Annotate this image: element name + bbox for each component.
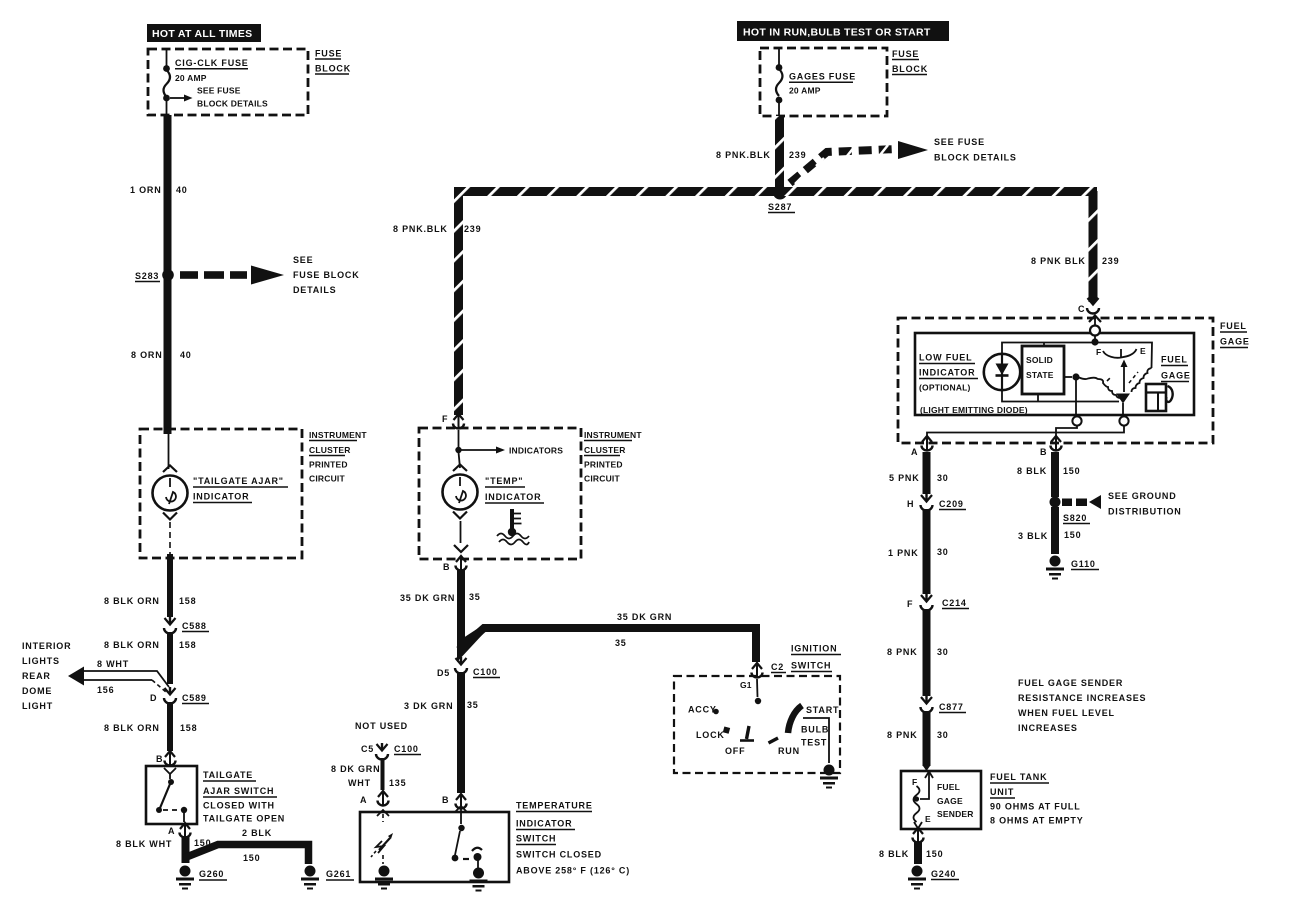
svg-text:30: 30 xyxy=(937,473,949,483)
svg-text:SWITCH: SWITCH xyxy=(791,661,831,671)
wire 2 BLK 150 to G261 xyxy=(184,828,309,864)
svg-text:BLOCK: BLOCK xyxy=(315,64,351,74)
svg-text:H: H xyxy=(907,499,914,509)
svg-text:D5: D5 xyxy=(437,668,450,678)
svg-text:8 BLK: 8 BLK xyxy=(1017,466,1047,476)
svg-text:8 BLK ORN: 8 BLK ORN xyxy=(104,640,160,650)
fuse CIG-CLK FUSE 20 AMP xyxy=(163,50,249,114)
svg-text:BLOCK DETAILS: BLOCK DETAILS xyxy=(197,99,268,109)
svg-text:LIGHT: LIGHT xyxy=(22,701,53,711)
see fuse block details arrow (fuse1) xyxy=(170,86,268,109)
svg-text:8 PNK BLK: 8 PNK BLK xyxy=(1031,256,1086,266)
not used branch C5 C100 xyxy=(355,721,421,760)
striped wire 8 PNK BLK 239 (right drop) xyxy=(1031,191,1119,302)
svg-text:TEST: TEST xyxy=(801,738,827,748)
svg-text:WHT: WHT xyxy=(348,778,371,788)
svg-text:INDICATOR: INDICATOR xyxy=(919,368,975,378)
svg-text:8 PNK: 8 PNK xyxy=(887,647,918,657)
svg-text:C209: C209 xyxy=(939,499,964,509)
svg-text:SWITCH: SWITCH xyxy=(516,834,556,844)
svg-text:239: 239 xyxy=(464,224,481,234)
wire 8 BLK 150 (to G240) xyxy=(879,842,943,864)
svg-text:20 AMP: 20 AMP xyxy=(175,73,207,83)
svg-text:A: A xyxy=(911,447,918,457)
svg-text:"TEMP": "TEMP" xyxy=(485,476,523,486)
connector C100 D5 xyxy=(437,657,500,678)
svg-text:INTERIOR: INTERIOR xyxy=(22,641,71,651)
svg-text:UNIT: UNIT xyxy=(990,787,1014,797)
svg-text:156: 156 xyxy=(97,685,114,695)
svg-text:C588: C588 xyxy=(182,621,207,631)
svg-text:G261: G261 xyxy=(326,869,351,879)
svg-text:RESISTANCE INCREASES: RESISTANCE INCREASES xyxy=(1018,693,1146,703)
wire 8 BLK 150 (B to S820) xyxy=(1017,452,1080,497)
svg-text:PRINTED: PRINTED xyxy=(584,460,623,470)
svg-text:SWITCH CLOSED: SWITCH CLOSED xyxy=(516,850,602,860)
svg-text:158: 158 xyxy=(179,596,196,606)
svg-text:REAR: REAR xyxy=(22,671,51,681)
svg-text:E: E xyxy=(925,814,931,824)
svg-text:CIRCUIT: CIRCUIT xyxy=(309,474,345,484)
svg-text:C5: C5 xyxy=(361,744,374,754)
fuel tank unit label xyxy=(990,772,1084,826)
svg-text:G240: G240 xyxy=(931,869,956,879)
svg-text:NOT USED: NOT USED xyxy=(355,721,408,731)
striped wire 8 PNK BLK 239 (fuse to S287) xyxy=(716,116,806,190)
svg-text:F: F xyxy=(1096,347,1101,357)
svg-text:AJAR SWITCH: AJAR SWITCH xyxy=(203,786,274,796)
fuel gage inner box xyxy=(915,326,1194,416)
svg-text:C2: C2 xyxy=(771,662,784,672)
svg-text:8 WHT: 8 WHT xyxy=(97,659,129,669)
ground G240 xyxy=(908,866,959,890)
pin A temp switch xyxy=(360,791,389,806)
svg-text:35: 35 xyxy=(469,592,481,602)
svg-text:F: F xyxy=(442,414,448,424)
svg-text:SEE GROUND: SEE GROUND xyxy=(1108,491,1177,501)
svg-text:30: 30 xyxy=(937,730,949,740)
svg-text:RUN: RUN xyxy=(778,746,800,756)
svg-text:C100: C100 xyxy=(473,667,498,677)
svg-text:90 OHMS AT FULL: 90 OHMS AT FULL xyxy=(990,802,1081,812)
svg-text:35: 35 xyxy=(467,700,479,710)
svg-text:135: 135 xyxy=(389,778,406,788)
svg-text:8 PNK.BLK: 8 PNK.BLK xyxy=(716,150,771,160)
svg-text:C100: C100 xyxy=(394,744,419,754)
temp switch contact (right) xyxy=(452,806,482,868)
svg-text:SEE FUSE: SEE FUSE xyxy=(197,86,241,96)
wire 3 BLK 150 (S820 to G110) xyxy=(1018,507,1081,554)
svg-text:FUSE: FUSE xyxy=(315,49,342,59)
LED low fuel indicator xyxy=(984,354,1020,390)
svg-text:8 PNK.BLK: 8 PNK.BLK xyxy=(393,224,448,234)
svg-text:E: E xyxy=(1140,346,1146,356)
svg-text:B: B xyxy=(443,562,450,572)
low fuel indicator text xyxy=(919,353,1028,416)
label HOT AT ALL TIMES xyxy=(147,24,261,42)
svg-text:GAGE: GAGE xyxy=(1220,337,1250,347)
ground G110 xyxy=(1046,556,1099,580)
connector C588 xyxy=(164,617,209,634)
svg-text:SEE FUSE: SEE FUSE xyxy=(934,137,985,147)
svg-text:LOW FUEL: LOW FUEL xyxy=(919,353,972,363)
svg-text:150: 150 xyxy=(243,853,260,863)
pin B fuel gage xyxy=(1040,436,1062,457)
pin B temp switch xyxy=(442,794,467,809)
svg-text:GAGE: GAGE xyxy=(937,796,963,806)
svg-text:239: 239 xyxy=(789,150,806,160)
svg-text:INCREASES: INCREASES xyxy=(1018,723,1078,733)
wire 8 BLK ORN 158 (to C588) xyxy=(104,554,196,617)
temp switch thermal contact (left) xyxy=(371,810,393,864)
svg-text:1 ORN: 1 ORN xyxy=(130,185,162,195)
svg-text:S820: S820 xyxy=(1063,513,1087,523)
svg-text:150: 150 xyxy=(926,849,943,859)
svg-text:INSTRUMENT: INSTRUMENT xyxy=(584,430,642,440)
svg-text:G110: G110 xyxy=(1071,559,1096,569)
svg-text:8 PNK: 8 PNK xyxy=(887,730,918,740)
splice S820 and see ground distribution arrow xyxy=(1050,491,1182,524)
svg-text:1 PNK: 1 PNK xyxy=(888,548,919,558)
connector C589 xyxy=(150,687,209,704)
svg-text:DOME: DOME xyxy=(22,686,52,696)
svg-text:8 ORN: 8 ORN xyxy=(131,350,163,360)
svg-text:8 DK GRN: 8 DK GRN xyxy=(331,764,380,774)
svg-text:SEE: SEE xyxy=(293,255,313,265)
svg-text:CLOSED WITH: CLOSED WITH xyxy=(203,801,275,811)
splice S283 xyxy=(135,269,174,281)
svg-text:(LIGHT EMITTING DIODE): (LIGHT EMITTING DIODE) xyxy=(920,405,1028,415)
ignition switch ground xyxy=(820,765,838,789)
svg-text:FUEL GAGE SENDER: FUEL GAGE SENDER xyxy=(1018,678,1123,688)
wire 8 DK GRN WHT 135 xyxy=(331,758,406,790)
wire 1 PNK 30 xyxy=(888,509,949,594)
svg-text:CIG-CLK FUSE: CIG-CLK FUSE xyxy=(175,58,249,68)
svg-text:LIGHTS: LIGHTS xyxy=(22,656,60,666)
fuse GAGES FUSE 20 AMP xyxy=(776,49,856,115)
svg-text:INDICATOR: INDICATOR xyxy=(516,819,572,829)
svg-text:8 BLK ORN: 8 BLK ORN xyxy=(104,723,160,733)
svg-text:STATE: STATE xyxy=(1026,370,1054,380)
fuel gauge meter xyxy=(1079,343,1191,417)
ignition switch contacts xyxy=(688,679,839,763)
wire bus top (LED/SS to C pin) xyxy=(1002,335,1099,354)
striped bus wire horizontal xyxy=(454,187,1097,196)
pin A fuel gage xyxy=(911,436,933,457)
fuel gage sender resistor xyxy=(914,772,934,829)
svg-text:ABOVE 258° F (126° C): ABOVE 258° F (126° C) xyxy=(516,866,630,876)
svg-text:SENDER: SENDER xyxy=(937,809,974,819)
svg-text:3 BLK: 3 BLK xyxy=(1018,531,1048,541)
wire 8 BLK ORN 158 (C588 to C589) xyxy=(104,632,196,684)
svg-text:FUSE: FUSE xyxy=(892,49,919,59)
svg-text:B: B xyxy=(442,795,449,805)
pin F instrument cluster (temp) xyxy=(442,414,464,429)
fuse block 2 dashed box xyxy=(760,48,928,116)
temp indicator bulb xyxy=(443,452,545,552)
instrument cluster printed circuit box (left) xyxy=(140,429,367,558)
svg-text:FUEL: FUEL xyxy=(1220,321,1247,331)
svg-text:LOCK: LOCK xyxy=(696,730,725,740)
wire 3 DK GRN 35 (C100 to B) xyxy=(404,672,479,793)
svg-text:S283: S283 xyxy=(135,271,159,281)
svg-text:G260: G260 xyxy=(199,869,224,879)
connector C877 xyxy=(921,696,967,713)
S287 dashed arrow SEE FUSE BLOCK DETAILS xyxy=(790,137,1017,184)
svg-text:INDICATOR: INDICATOR xyxy=(193,492,249,502)
wire 35 DK GRN 35 (B to C100) xyxy=(400,570,481,653)
fuel tank unit box xyxy=(901,771,981,829)
S283 dashed arrow SEE FUSE BLOCK DETAILS xyxy=(180,255,360,295)
temp switch ground (right) xyxy=(470,868,488,892)
striped wire 8 PNK.BLK 239 (left drop) xyxy=(393,191,481,415)
wire 8 PNK 30 (C877 to fuel tank unit) xyxy=(887,711,949,771)
svg-text:GAGE: GAGE xyxy=(1161,371,1191,381)
splice S287 xyxy=(768,186,795,213)
svg-text:"TAILGATE AJAR": "TAILGATE AJAR" xyxy=(193,476,284,486)
wire 1 ORN 40 xyxy=(130,115,188,434)
svg-text:SOLID: SOLID xyxy=(1026,355,1053,365)
wire bus bottom (LED/SS to coil vertex) xyxy=(1002,390,1119,402)
svg-text:WHEN FUEL LEVEL: WHEN FUEL LEVEL xyxy=(1018,708,1115,718)
svg-text:C214: C214 xyxy=(942,598,967,608)
svg-text:3 DK GRN: 3 DK GRN xyxy=(404,701,453,711)
fuel gage pin circles xyxy=(927,416,1129,438)
svg-text:239: 239 xyxy=(1102,256,1119,266)
svg-text:DETAILS: DETAILS xyxy=(293,285,336,295)
svg-text:5 PNK: 5 PNK xyxy=(889,473,920,483)
svg-text:INSTRUMENT: INSTRUMENT xyxy=(309,430,367,440)
tailgate ajar indicator bulb xyxy=(153,430,289,556)
svg-text:A: A xyxy=(360,795,367,805)
svg-text:CLUSTER: CLUSTER xyxy=(584,445,626,455)
svg-text:FUEL: FUEL xyxy=(1161,355,1188,365)
svg-text:8 BLK WHT: 8 BLK WHT xyxy=(116,839,172,849)
svg-text:40: 40 xyxy=(180,350,192,360)
svg-text:C: C xyxy=(1078,304,1085,314)
svg-text:FUEL TANK: FUEL TANK xyxy=(990,772,1047,782)
svg-text:TEMPERATURE: TEMPERATURE xyxy=(516,801,593,811)
pin C fuel gage xyxy=(1078,297,1101,326)
solid state to gauge junction xyxy=(1064,373,1080,416)
svg-text:35 DK GRN: 35 DK GRN xyxy=(617,612,672,622)
svg-text:CLUSTER: CLUSTER xyxy=(309,445,351,455)
svg-text:35: 35 xyxy=(615,638,627,648)
svg-text:PRINTED: PRINTED xyxy=(309,460,348,470)
svg-text:2 BLK: 2 BLK xyxy=(242,828,272,838)
svg-text:BLOCK DETAILS: BLOCK DETAILS xyxy=(934,153,1017,163)
tailgate ajar switch box xyxy=(146,766,285,824)
pin B tailgate switch xyxy=(156,751,176,766)
temp icon thermometer xyxy=(497,509,529,545)
wire 8 BLK ORN 158 (C589 to B) xyxy=(104,702,197,751)
interior lights rear dome light arrow xyxy=(22,641,169,711)
svg-text:C877: C877 xyxy=(939,702,964,712)
svg-text:BLOCK: BLOCK xyxy=(892,64,928,74)
svg-text:8 BLK ORN: 8 BLK ORN xyxy=(104,596,160,606)
svg-text:40: 40 xyxy=(176,185,188,195)
pin A tailgate switch xyxy=(168,823,191,838)
pin B temp indicator xyxy=(443,556,467,572)
temp switch ground (left) xyxy=(375,866,393,890)
svg-text:DISTRIBUTION: DISTRIBUTION xyxy=(1108,507,1182,517)
solid state box xyxy=(1022,346,1064,394)
pin below fuel tank unit xyxy=(913,828,924,843)
svg-text:OFF: OFF xyxy=(725,746,745,756)
wire 35 DK GRN 35 branch to ignition switch xyxy=(457,612,756,662)
ignition switch dashed box xyxy=(674,644,841,774)
svg-text:C589: C589 xyxy=(182,693,207,703)
svg-text:FUEL: FUEL xyxy=(937,782,960,792)
wire 8 BLK WHT 150 to G260 xyxy=(116,836,211,863)
svg-text:HOT AT ALL TIMES: HOT AT ALL TIMES xyxy=(152,28,252,40)
svg-text:30: 30 xyxy=(937,647,949,657)
svg-text:B: B xyxy=(156,754,163,764)
ground G261 xyxy=(301,866,354,890)
svg-text:START: START xyxy=(806,705,839,715)
svg-text:GAGES FUSE: GAGES FUSE xyxy=(789,72,856,82)
pin C2 ignition switch xyxy=(740,662,786,690)
svg-text:G1: G1 xyxy=(740,680,752,690)
connector C214 F xyxy=(907,594,969,611)
svg-text:B: B xyxy=(1040,447,1047,457)
svg-text:TAILGATE OPEN: TAILGATE OPEN xyxy=(203,814,285,824)
fuel gage sender note xyxy=(1018,678,1146,733)
svg-text:IGNITION: IGNITION xyxy=(791,644,837,654)
svg-text:20 AMP: 20 AMP xyxy=(789,86,821,96)
label HOT IN RUN,BULB TEST OR START xyxy=(737,21,949,41)
svg-text:INDICATORS: INDICATORS xyxy=(509,446,563,456)
svg-text:BULB: BULB xyxy=(801,725,829,735)
svg-text:INDICATOR: INDICATOR xyxy=(485,492,541,502)
svg-text:F: F xyxy=(912,777,917,787)
svg-text:S287: S287 xyxy=(768,202,792,212)
svg-text:35 DK GRN: 35 DK GRN xyxy=(400,593,455,603)
svg-text:8 OHMS AT EMPTY: 8 OHMS AT EMPTY xyxy=(990,816,1084,826)
svg-text:D: D xyxy=(150,693,157,703)
indicators arrow xyxy=(455,430,563,456)
svg-text:158: 158 xyxy=(180,723,197,733)
svg-text:30: 30 xyxy=(937,547,949,557)
fuse block 1 dashed box xyxy=(148,49,351,116)
svg-text:ACCY: ACCY xyxy=(688,705,717,715)
fuel pump icon xyxy=(1146,384,1173,411)
instrument cluster printed circuit box (middle) xyxy=(419,428,642,559)
svg-text:FUSE BLOCK: FUSE BLOCK xyxy=(293,270,360,280)
ground G260 xyxy=(176,866,227,890)
fuel gage outer dashed box xyxy=(898,318,1250,443)
temperature indicator switch box xyxy=(360,801,630,883)
svg-text:150: 150 xyxy=(1064,530,1081,540)
connector C209 H xyxy=(907,494,966,511)
svg-text:8 BLK: 8 BLK xyxy=(879,849,909,859)
svg-text:158: 158 xyxy=(179,640,196,650)
svg-text:(OPTIONAL): (OPTIONAL) xyxy=(919,383,971,393)
svg-text:F: F xyxy=(907,599,913,609)
wire 5 PNK 30 xyxy=(889,452,949,494)
wire 8 ORN 40 xyxy=(131,350,192,360)
svg-text:A: A xyxy=(168,826,175,836)
wire 8 PNK 30 (C214-C877) xyxy=(887,609,949,696)
svg-text:CIRCUIT: CIRCUIT xyxy=(584,474,620,484)
svg-text:150: 150 xyxy=(1063,466,1080,476)
svg-text:HOT IN RUN,BULB TEST OR START: HOT IN RUN,BULB TEST OR START xyxy=(743,27,931,39)
svg-text:TAILGATE: TAILGATE xyxy=(203,770,253,780)
